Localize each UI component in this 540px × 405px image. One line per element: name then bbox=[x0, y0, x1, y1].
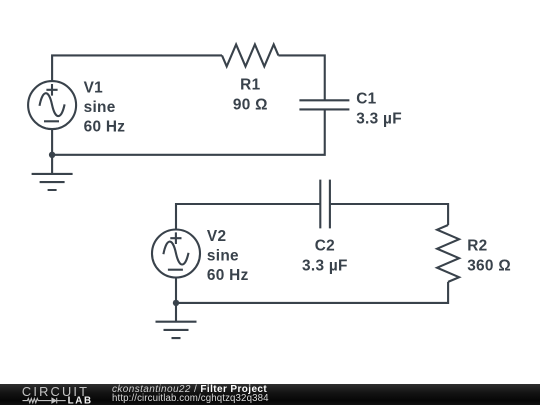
wire: V2 bottom lead bbox=[175, 277, 177, 303]
wire: R2 bottom to V2 bottom node bbox=[176, 282, 448, 303]
svg-text:360 Ω: 360 Ω bbox=[467, 258, 511, 275]
wire: V2 top lead to C2 left bbox=[176, 204, 320, 230]
svg-text:60 Hz: 60 Hz bbox=[207, 267, 249, 284]
voltage source V1 bbox=[28, 81, 76, 129]
resistor R2 bbox=[437, 225, 459, 282]
node: V2/GND2 junction bbox=[173, 300, 179, 306]
resistor R1 bbox=[222, 44, 278, 66]
wire: C1 bottom to V1 bottom node bbox=[52, 109, 325, 154]
logo diode triangle bbox=[51, 397, 57, 404]
svg-text:C1: C1 bbox=[356, 90, 376, 107]
wire: V1 top lead to R1 left bbox=[52, 55, 222, 81]
CircuitLab logo bbox=[20, 384, 100, 405]
svg-text:LAB: LAB bbox=[68, 396, 93, 405]
label C2 3.3 uF bbox=[302, 238, 348, 275]
svg-text:V2: V2 bbox=[207, 228, 226, 245]
label V2 sine 60 Hz bbox=[207, 228, 249, 284]
svg-text:sine: sine bbox=[207, 248, 239, 265]
capacitor C2 bbox=[320, 180, 330, 229]
wire: C2 right to R2 top bbox=[330, 204, 448, 225]
label V1 sine 60 Hz bbox=[84, 79, 126, 135]
capacitor C1 bbox=[299, 100, 349, 109]
label C1 3.3 uF bbox=[356, 90, 402, 127]
svg-text:sine: sine bbox=[84, 99, 116, 116]
svg-text:R1: R1 bbox=[240, 76, 260, 93]
ground GND2 bbox=[156, 303, 197, 338]
wire: R1 right to C1 top bbox=[278, 55, 324, 100]
svg-text:R2: R2 bbox=[467, 238, 487, 255]
ground GND1 bbox=[32, 155, 73, 190]
node: V1/GND1 junction bbox=[49, 152, 55, 158]
logo wire after diode bbox=[57, 400, 66, 402]
label R1 90 Ohm bbox=[233, 76, 268, 113]
wire: V1 bottom lead bbox=[51, 129, 53, 155]
logo wire with resistor bbox=[23, 399, 52, 403]
label R2 360 Ohm bbox=[467, 238, 511, 275]
svg-text:C2: C2 bbox=[315, 238, 335, 255]
svg-text:3.3 µF: 3.3 µF bbox=[302, 257, 348, 274]
svg-text:90 Ω: 90 Ω bbox=[233, 97, 268, 114]
svg-text:60 Hz: 60 Hz bbox=[84, 118, 126, 135]
svg-text:3.3 µF: 3.3 µF bbox=[356, 110, 402, 127]
logo diode cathode bar bbox=[56, 398, 58, 404]
svg-text:V1: V1 bbox=[84, 79, 104, 96]
voltage source V2 bbox=[152, 230, 200, 278]
